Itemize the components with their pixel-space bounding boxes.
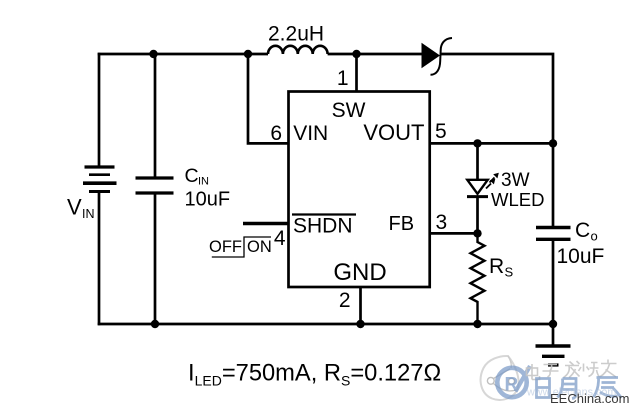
svg-text:2: 2: [339, 289, 351, 312]
svg-text:3W: 3W: [501, 170, 530, 191]
wire FB pin lead: [430, 232, 478, 235]
svg-text:ILED=750mA, RS=0.127Ω: ILED=750mA, RS=0.127Ω: [188, 361, 441, 389]
svg-text:o: o: [591, 229, 598, 244]
watermark gray char fa: [564, 361, 580, 378]
capacitor C_o: [536, 143, 571, 324]
svg-text:S: S: [505, 265, 514, 280]
svg-text:WLED: WLED: [491, 189, 544, 210]
svg-text:C: C: [575, 219, 590, 242]
watermark blue char yue: [558, 379, 577, 399]
watermark logo node circle left: [487, 377, 494, 384]
resistor R_S: [471, 233, 485, 324]
inductor L1 2.2uH: [268, 46, 328, 54]
label SHDN with overline: [292, 214, 356, 237]
svg-text:10uF: 10uF: [557, 245, 605, 268]
IC U1 box: [289, 92, 430, 288]
wire inductor to diode: [328, 53, 422, 56]
svg-text:2.2uH: 2.2uH: [268, 23, 324, 46]
watermark logo curved line: [494, 384, 517, 391]
svg-text:C: C: [185, 165, 199, 187]
svg-text:IN: IN: [198, 176, 209, 188]
wire diode to right corner: [440, 54, 553, 143]
svg-text:ON: ON: [247, 238, 272, 256]
wire LED top lead: [476, 143, 479, 180]
watermark logo leaf outline: [481, 356, 519, 400]
node junction Rs/bottom rail: [473, 320, 481, 328]
node junction C_o/bottom rail: [549, 320, 557, 328]
diode D1: [422, 38, 453, 75]
svg-text:EEChina.com: EEChina.com: [550, 391, 629, 406]
wire battery bottom lead: [98, 193, 101, 325]
svg-text:5: 5: [435, 120, 447, 143]
svg-text:R: R: [505, 375, 519, 396]
svg-text:GND: GND: [333, 259, 386, 286]
node junction battery/C_IN top: [149, 50, 157, 58]
svg-text:VIN: VIN: [293, 122, 328, 145]
watermark logo link line: [494, 369, 511, 379]
svg-text:IN: IN: [82, 207, 95, 221]
watermark gray char zi: [543, 365, 559, 378]
wire LED bottom lead: [476, 197, 479, 234]
svg-text:OFF: OFF: [209, 238, 242, 256]
caption I_LED=750mA, R_S=0.127 ohm: [188, 361, 441, 389]
wire VIN branch down: [248, 54, 288, 143]
watermark blue char chen: [594, 378, 622, 399]
wire bottom rail: [98, 323, 553, 326]
OFF/ON waveform labels: [209, 237, 272, 257]
watermark blue ring: [497, 366, 530, 397]
wire pin1 SW lead: [355, 54, 358, 92]
watermark logo node circle right: [509, 378, 515, 384]
wire SHDN stub: [243, 222, 289, 225]
battery V_IN: [83, 167, 117, 192]
watermark gray char dian: [527, 364, 540, 380]
svg-text:SW: SW: [332, 99, 366, 122]
capacitor C_IN: [136, 54, 174, 324]
svg-text:6: 6: [270, 122, 282, 145]
svg-text:10uF: 10uF: [185, 189, 231, 211]
svg-text:FB: FB: [389, 213, 415, 235]
wire top rail from battery to inductor: [98, 53, 268, 56]
wire battery top lead: [98, 53, 101, 166]
node junction SW pin top: [352, 50, 360, 58]
wire pin5 VOUT rail: [430, 142, 553, 145]
svg-text:VOUT: VOUT: [363, 120, 424, 145]
node junction LED/FB/Rs: [473, 229, 481, 237]
watermark blue char ri: [537, 379, 550, 398]
node junction pin2/bottom rail: [356, 320, 364, 328]
node junction C_IN bottom: [151, 320, 159, 328]
node junction VOUT/LED branch: [473, 139, 481, 147]
svg-text:V: V: [67, 195, 82, 220]
svg-text:3: 3: [436, 211, 448, 234]
LED D2 3W WLED: [467, 173, 499, 197]
watermark gray char shao: [579, 363, 600, 377]
ground: [536, 324, 571, 365]
svg-text:4: 4: [274, 227, 286, 250]
watermark gray char you: [600, 360, 617, 378]
node junction VOUT/C_o branch: [549, 139, 557, 147]
svg-text:SHDN: SHDN: [293, 214, 353, 237]
svg-text:1: 1: [337, 67, 349, 90]
svg-text:R: R: [489, 255, 504, 278]
node junction inductor/VIN branch: [244, 50, 252, 58]
wire pin2 GND lead: [359, 287, 362, 324]
